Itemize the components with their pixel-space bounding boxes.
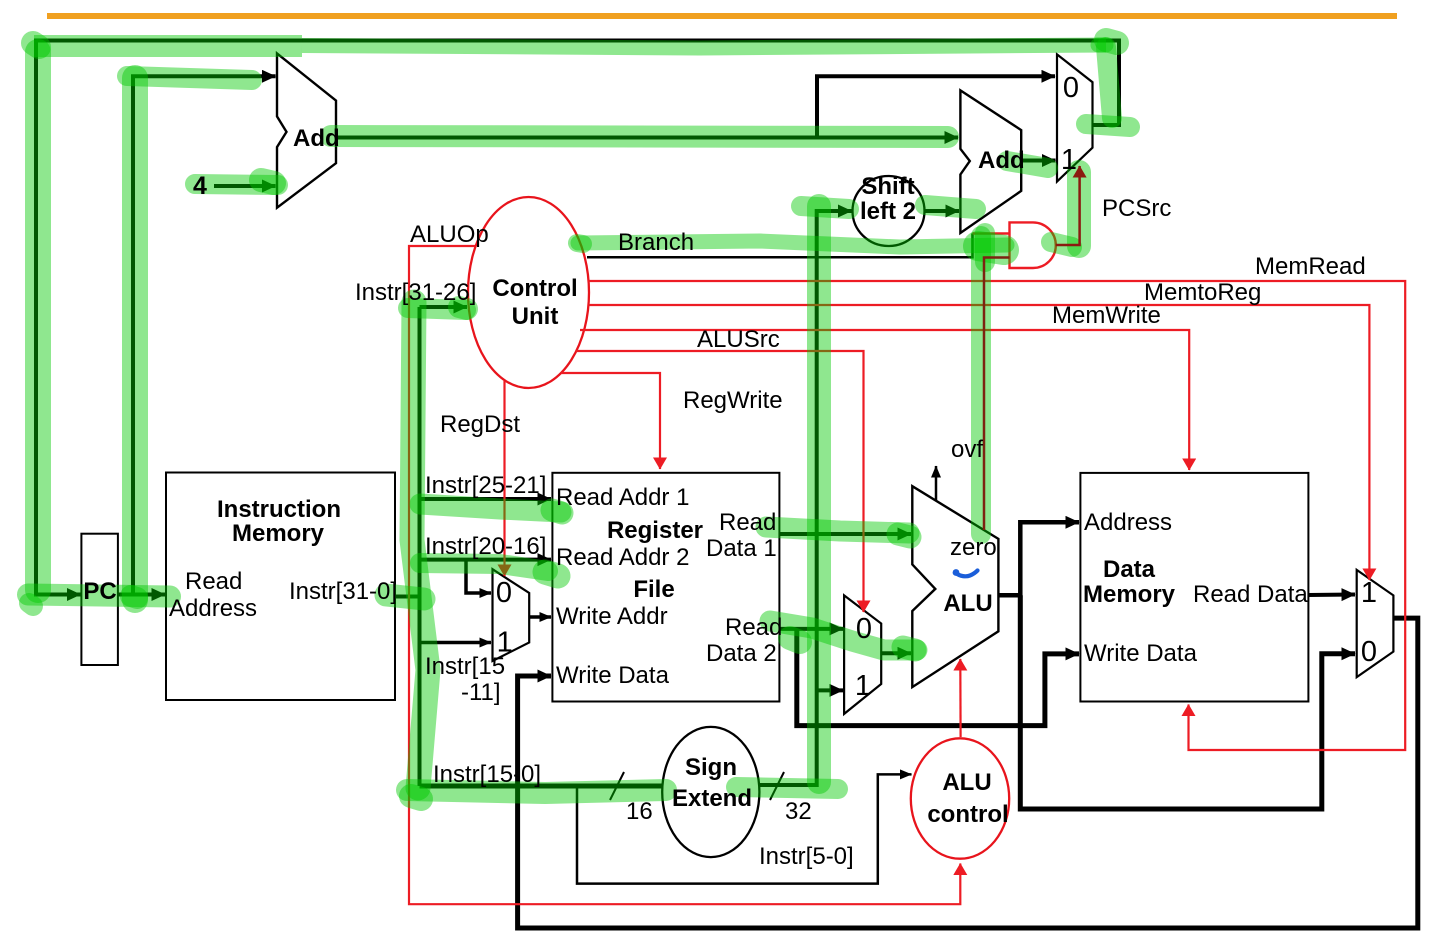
- svg-text:4: 4: [193, 172, 207, 200]
- svg-text:Extend: Extend: [672, 785, 752, 812]
- wire Read Data 2 to mux ALUSrc 0: [779, 627, 843, 631]
- svg-text:32: 32: [785, 798, 812, 825]
- svg-text:Write Addr: Write Addr: [556, 603, 668, 630]
- slash 32: [770, 772, 784, 800]
- svg-text:Instr[5-0]: Instr[5-0]: [759, 843, 854, 870]
- svg-text:1: 1: [1061, 144, 1077, 176]
- wire AND gate top input stub: [973, 232, 1010, 235]
- data memory box: [1080, 473, 1308, 702]
- wire Instr[31-26] to control: [420, 305, 468, 309]
- wire Instr[25-21]: [420, 497, 552, 501]
- green Branch: [578, 241, 1007, 247]
- maroon PCSrc select wire: [1056, 166, 1080, 245]
- svg-text:Control: Control: [492, 275, 577, 302]
- svg-text:RegWrite: RegWrite: [683, 387, 783, 414]
- wire Branch to AND gate: [587, 234, 973, 258]
- ALU main: [912, 486, 998, 687]
- red MemWrite: [580, 330, 1189, 470]
- svg-text:Instr[20-16]: Instr[20-16]: [425, 533, 546, 560]
- svg-text:Branch: Branch: [618, 229, 694, 256]
- green 4 constant: [195, 184, 278, 185]
- wire sign extend out to mux ALUSrc 1: [817, 688, 843, 692]
- svg-text:ovf: ovf: [951, 436, 983, 463]
- green riser to shift left 2: [807, 206, 831, 782]
- svg-text:Read Data: Read Data: [1193, 581, 1308, 608]
- svg-text:Read: Read: [185, 568, 242, 595]
- svg-text:Data 2: Data 2: [706, 640, 777, 667]
- green shift input: [801, 206, 849, 209]
- green instruction bus vertical: [412, 302, 428, 788]
- svg-text:Read: Read: [719, 509, 776, 536]
- red RegWrite: [561, 373, 660, 469]
- mux ALUSrc: [844, 595, 881, 714]
- svg-text:zero: zero: [950, 534, 997, 561]
- red ALUSrc: [576, 351, 864, 612]
- green top horizontal: [34, 35, 302, 57]
- register PC: [81, 534, 118, 665]
- svg-text:Instr[31-0]: Instr[31-0]: [289, 578, 397, 605]
- wire PC+4 to branch adder: [336, 136, 958, 140]
- svg-text:0: 0: [1063, 72, 1079, 104]
- svg-text:0: 0: [1361, 636, 1377, 668]
- green sign extend out: [736, 787, 838, 789]
- svg-text:RegDst: RegDst: [440, 411, 520, 438]
- green top-left blob: [33, 43, 39, 47]
- svg-text:control: control: [927, 801, 1008, 828]
- control unit ellipse: [468, 197, 589, 388]
- orange title rule: [47, 13, 1397, 19]
- green PCSrc select: [1067, 172, 1091, 246]
- blue pen mark: [953, 569, 960, 576]
- svg-text:ALUOp: ALUOp: [410, 221, 489, 248]
- svg-text:Data: Data: [1103, 556, 1156, 583]
- mux RegDst: [493, 569, 530, 661]
- svg-text:Sign: Sign: [685, 754, 737, 781]
- green Instr[15-0]: [407, 790, 666, 793]
- svg-text:1: 1: [497, 627, 513, 659]
- green Instr[31-26]: [408, 308, 466, 310]
- svg-text:Unit: Unit: [512, 303, 559, 330]
- wire PC loop: mux out, top, down left, into PC: [36, 41, 1119, 595]
- wire shift left 2 to branch adder: [925, 209, 960, 213]
- adder Add (PC+4): [277, 53, 336, 207]
- svg-text:Instr[15: Instr[15: [425, 653, 505, 680]
- wire PC+4 to mux 0: [817, 76, 1055, 137]
- green mux out: [1086, 124, 1130, 127]
- svg-text:Instruction: Instruction: [217, 496, 341, 523]
- svg-text:Read: Read: [725, 614, 782, 641]
- svg-text:MemWrite: MemWrite: [1052, 302, 1161, 329]
- svg-text:1: 1: [855, 670, 871, 702]
- svg-text:Memory: Memory: [1083, 581, 1176, 608]
- wire Instr[20-16] to mux RegDst 0: [466, 560, 491, 593]
- wire mux RegDst out to Write Addr: [529, 615, 551, 619]
- svg-text:left 2: left 2: [860, 198, 916, 225]
- wire zero to AND gate: [984, 258, 1010, 531]
- svg-text:Instr[25-21]: Instr[25-21]: [425, 472, 546, 499]
- svg-text:Add: Add: [978, 147, 1025, 174]
- green second vertical: [122, 78, 148, 600]
- green PC+4 feed: [127, 76, 252, 80]
- svg-text:Read Addr 1: Read Addr 1: [556, 484, 689, 511]
- green Read Data 1: [766, 527, 909, 533]
- wire ALU result to data memory Address: [998, 522, 1079, 595]
- svg-text:Register: Register: [607, 517, 703, 544]
- wire Instr[15-11] to mux RegDst 1: [420, 641, 492, 645]
- green branch adder to mux 1: [1007, 161, 1048, 168]
- wire mux ALUSrc out to ALU: [881, 651, 911, 655]
- wire Read Data 2 to data memory Write Data: [797, 629, 1079, 726]
- green Instr[20-16]: [420, 563, 548, 571]
- svg-text:PCSrc: PCSrc: [1102, 195, 1171, 222]
- svg-text:0: 0: [496, 577, 512, 609]
- wire data memory Read Data to mux MemtoReg 1: [1308, 593, 1355, 598]
- svg-text:MemtoReg: MemtoReg: [1144, 279, 1261, 306]
- wire ALU result to mux MemtoReg 0: [1020, 595, 1355, 809]
- svg-text:MemRead: MemRead: [1255, 253, 1366, 280]
- svg-text:Memory: Memory: [232, 520, 325, 547]
- svg-text:0: 0: [856, 613, 872, 645]
- svg-text:Address: Address: [169, 595, 257, 622]
- shift left 2 ellipse: [853, 176, 925, 246]
- adder Add (branch): [960, 90, 1021, 233]
- wire branch adder out to mux 1: [1021, 159, 1055, 163]
- red ALUOp: [409, 246, 960, 904]
- wire Instr[31-0] bus: [395, 307, 420, 786]
- ALU control ellipse: [911, 738, 1009, 858]
- svg-text:16: 16: [626, 798, 653, 825]
- svg-text:Data 1: Data 1: [706, 535, 777, 562]
- svg-text:Instr[15-0]: Instr[15-0]: [433, 761, 541, 788]
- green AND blob: [978, 246, 1004, 250]
- red RegDst: [503, 381, 505, 576]
- svg-text:Read Addr 2: Read Addr 2: [556, 544, 689, 571]
- AND gate (branch): [1010, 222, 1056, 268]
- wire sign extend out up to shift left 2: [759, 211, 851, 785]
- register file box: [552, 473, 779, 702]
- red MemtoReg: [589, 305, 1370, 580]
- red ALU control to ALU: [959, 659, 961, 737]
- svg-text:ALU: ALU: [943, 590, 992, 617]
- svg-text:File: File: [633, 576, 674, 603]
- green PC+4 output: [331, 136, 948, 137]
- wire overflow arrow: [935, 466, 938, 500]
- wire PC out up to +4 adder: [133, 76, 276, 594]
- red MemRead: [588, 281, 1405, 750]
- instruction memory box: [166, 473, 395, 701]
- svg-text:Address: Address: [1084, 509, 1172, 536]
- green Instr[25-21]: [420, 504, 561, 512]
- svg-text:Instr[31-26]: Instr[31-26]: [355, 279, 476, 306]
- wire constant 4: [214, 184, 276, 188]
- green Read Data 2 through mux: [770, 621, 917, 650]
- mux MemtoReg: [1357, 570, 1394, 677]
- green zero riser: [971, 236, 991, 534]
- green highlighter overlay: [28, 40, 1130, 799]
- wire write back to register file: [518, 618, 1418, 928]
- svg-text:Shift: Shift: [861, 173, 914, 200]
- svg-text:-11]: -11]: [461, 679, 501, 706]
- wire Read Data 1 to ALU: [779, 532, 911, 536]
- wire PC to instruction memory: [118, 593, 165, 597]
- svg-text:PC: PC: [83, 578, 116, 605]
- svg-text:1: 1: [1361, 577, 1377, 609]
- svg-text:Write Data: Write Data: [1084, 640, 1198, 667]
- green left vertical: [25, 52, 51, 590]
- svg-text:Write Data: Write Data: [556, 662, 670, 689]
- svg-text:ALUSrc: ALUSrc: [697, 326, 780, 353]
- svg-text:Add: Add: [293, 125, 340, 152]
- mux PCSrc: [1057, 54, 1093, 181]
- svg-text:ALU: ALU: [942, 769, 991, 796]
- slash 16: [610, 772, 624, 800]
- sign extend ellipse: [662, 727, 759, 857]
- green shift output: [925, 205, 976, 209]
- wire Instr[20-16]: [420, 558, 552, 562]
- green PC row: [28, 595, 170, 597]
- wire Instr[15-0] to sign extend: [420, 784, 663, 789]
- wire Instr[5-0] to ALU control: [577, 774, 912, 883]
